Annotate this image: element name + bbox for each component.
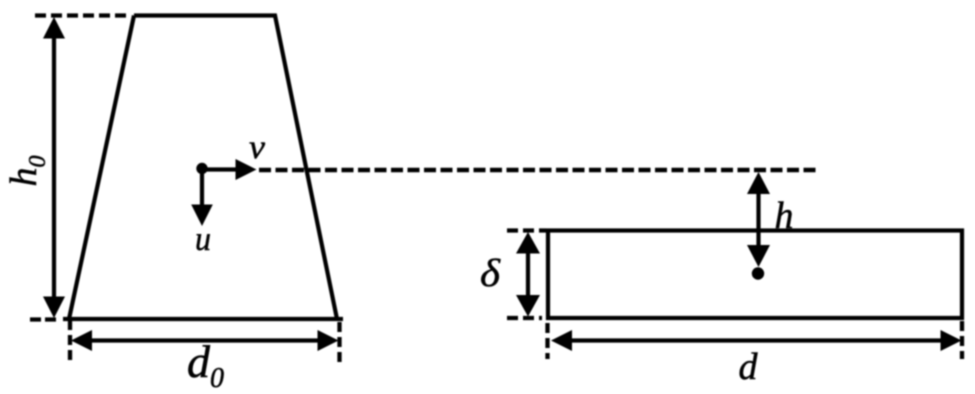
svg-text:u: u [195,221,211,258]
svg-text:d: d [739,346,759,388]
svg-text:h0: h0 [3,156,51,187]
svg-text:h: h [775,195,794,237]
svg-text:δ: δ [480,252,501,295]
svg-text:v: v [249,129,266,166]
svg-text:d0: d0 [187,336,224,394]
